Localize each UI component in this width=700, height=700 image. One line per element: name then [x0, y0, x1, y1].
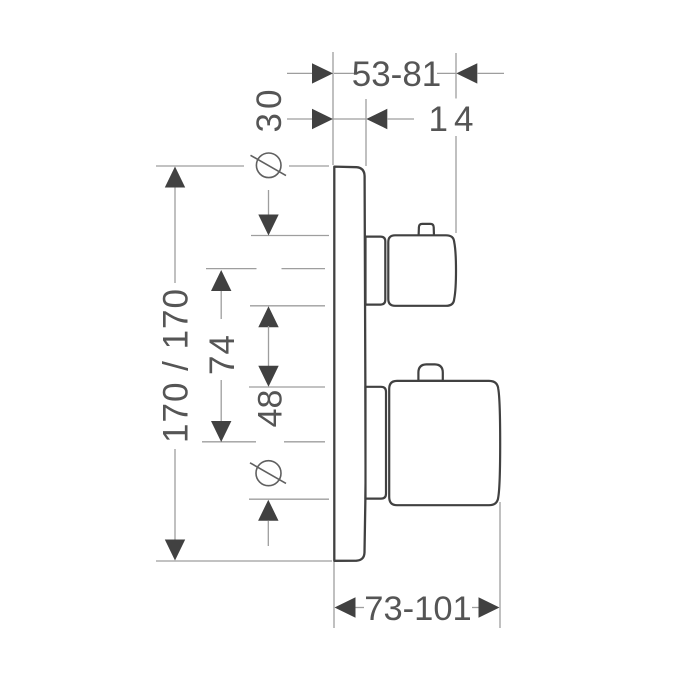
- dimension 53-81 arrow left: [312, 63, 333, 83]
- extension line bottom sleeve top: [249, 386, 325, 388]
- dimension 14 tail right: [387, 118, 414, 120]
- dimension 170/170 line: [174, 187, 176, 540]
- dimension 170/170 arrow up: [165, 167, 185, 188]
- dimension 170/170 arrow down: [165, 540, 185, 561]
- extension line bottom knob tip: [499, 502, 501, 628]
- dia symbol 48: [250, 461, 286, 486]
- dimension dia30 arrow bottom: [258, 306, 278, 327]
- svg-text:14: 14: [429, 100, 480, 139]
- dimension 53-81 line: [334, 72, 356, 74]
- dimension 53-81 tail right: [477, 72, 504, 74]
- dimension dia48 tail: [267, 521, 269, 547]
- escutcheon plate side view: [334, 167, 365, 561]
- extension line top knob top: [251, 235, 329, 237]
- dia symbol 30: [251, 153, 287, 178]
- svg-text:53-81: 53-81: [352, 55, 442, 94]
- dimension dia30 arrow top: [258, 215, 278, 236]
- top knob sleeve: [366, 237, 386, 305]
- bottom knob tab: [418, 364, 442, 380]
- dimension 14 arrow left: [312, 109, 333, 129]
- extension line plate top left: [156, 165, 244, 167]
- extension line top knob bottom: [250, 305, 325, 307]
- bottom knob body: [389, 381, 500, 505]
- dimension 73-101 arrow right: [479, 597, 500, 617]
- svg-text:74: 74: [203, 334, 242, 375]
- dimension dia48 arrow bottom: [258, 500, 278, 521]
- svg-text:170 / 170: 170 / 170: [156, 288, 195, 443]
- dimension 14 line: [333, 118, 366, 120]
- extension line bottom sleeve bottom: [249, 498, 329, 500]
- dimension 74 arrow up: [211, 270, 231, 291]
- dimension 53-81 tail left: [287, 72, 314, 74]
- extension line knob tip upper: [455, 53, 457, 99]
- extension line plate front top: [365, 99, 367, 166]
- svg-text:73-101: 73-101: [364, 590, 471, 628]
- dimension 74 arrow down: [211, 421, 231, 442]
- dimension dia48 arrow top: [258, 366, 278, 387]
- center line top knob: [206, 268, 257, 270]
- top knob body: [388, 235, 456, 305]
- dimension 74 line: [220, 291, 222, 422]
- extension line plate bottom left: [156, 560, 332, 562]
- dimension 73-101 line: [355, 607, 364, 609]
- top knob tab: [419, 224, 434, 236]
- bottom knob sleeve: [366, 387, 387, 499]
- dimension 14 arrow right: [366, 109, 387, 129]
- dimension 73-101 arrow left: [335, 597, 356, 617]
- extension line knob tip lower: [455, 136, 457, 233]
- dimension dia30 leader: [268, 190, 270, 216]
- center line bottom knob: [202, 441, 256, 443]
- dimension 14 tail left: [287, 118, 314, 120]
- extension line wall top: [332, 52, 334, 165]
- dimension 53-81 arrow right: [456, 63, 477, 83]
- extension line wall bottom: [333, 561, 335, 628]
- svg-text:48: 48: [252, 390, 290, 428]
- shared connector between knobs: [268, 326, 270, 366]
- svg-text:30: 30: [250, 86, 289, 133]
